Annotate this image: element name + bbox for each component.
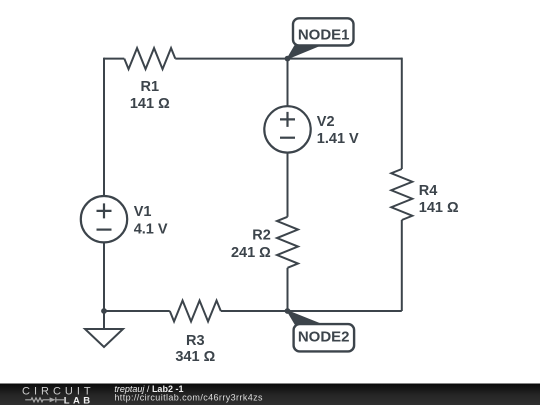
svg-text:V1: V1	[134, 204, 152, 220]
svg-text:141 Ω: 141 Ω	[419, 200, 459, 216]
NODE2 label box	[294, 324, 355, 351]
wire: right vertical lower segment	[401, 220, 403, 311]
svg-text:1.41 V: 1.41 V	[317, 131, 359, 147]
svg-text:R2: R2	[252, 227, 271, 243]
svg-text:NODE1: NODE1	[298, 26, 350, 43]
V2 minus sign	[280, 137, 295, 139]
node junction dot NODE1	[285, 56, 291, 62]
V1 minus sign	[97, 229, 112, 231]
node junction dot NODE2	[285, 308, 291, 314]
svg-text:R1: R1	[141, 79, 160, 95]
node junction dot bottom-left	[101, 308, 107, 314]
NODE1 flag pointer	[288, 46, 319, 59]
NODE1 label box	[293, 18, 354, 45]
wire: middle vertical from V2 to R2	[287, 153, 289, 217]
svg-text:R3: R3	[186, 333, 205, 349]
wire: middle vertical from NODE1 to V2	[287, 59, 289, 107]
resistor R2 zigzag	[277, 217, 298, 268]
ground: stub wire	[103, 311, 105, 329]
resistor R1 zigzag	[124, 48, 175, 69]
voltage source V2 circle	[264, 106, 310, 152]
svg-text:241 Ω: 241 Ω	[231, 245, 271, 261]
svg-text:NODE2: NODE2	[298, 329, 350, 346]
resistor R3 zigzag	[170, 301, 221, 322]
wire: bottom horizontal from R3 through NODE2 to bottom-right corner	[221, 310, 402, 312]
ground symbol triangle	[85, 329, 123, 347]
footer bar	[0, 384, 540, 405]
svg-text:http://circuitlab.com/c46rry3r: http://circuitlab.com/c46rry3rrk4zs	[114, 392, 263, 402]
svg-text:LAB: LAB	[64, 396, 94, 405]
svg-text:141 Ω: 141 Ω	[130, 96, 170, 112]
resistor R4 zigzag	[391, 169, 412, 220]
wire: top lead from top-left corner to R1	[104, 58, 124, 60]
wire: top horizontal from R1 through NODE1 to top-right corner	[175, 58, 401, 60]
voltage source V1 circle	[81, 196, 127, 242]
logo schematic squiggle wire	[25, 398, 49, 402]
svg-text:4.1 V: 4.1 V	[134, 222, 168, 238]
wire: right vertical upper segment	[401, 58, 403, 169]
NODE2 flag pointer	[288, 311, 321, 324]
wire: left vertical upper segment (corner to V1)	[103, 58, 105, 197]
wire: left vertical lower segment (V1 to bottom-left node)	[103, 242, 105, 311]
svg-text:R4: R4	[419, 183, 438, 199]
V2 plus sign	[280, 112, 295, 127]
logo diode symbol	[50, 397, 56, 402]
svg-text:341 Ω: 341 Ω	[175, 349, 215, 365]
wire: middle vertical from R2 to NODE2	[287, 268, 289, 311]
V1 plus sign	[97, 203, 112, 218]
wire: bottom left segment (node to R3)	[104, 310, 170, 312]
svg-text:V2: V2	[317, 114, 335, 130]
